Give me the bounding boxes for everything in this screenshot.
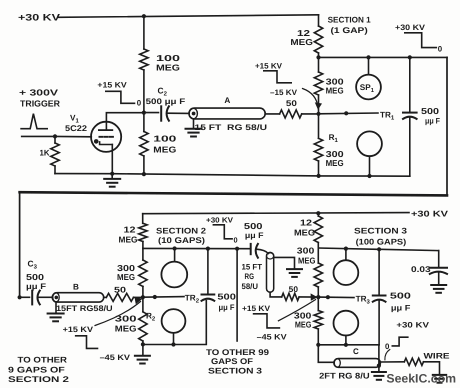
ground (coax shield section3) bbox=[287, 269, 302, 277]
node 12MEG top (section3) bbox=[316, 211, 320, 215]
svg-text:μμ F: μμ F bbox=[26, 282, 46, 291]
TR3 label bbox=[356, 294, 371, 305]
svg-text:50: 50 bbox=[114, 286, 127, 295]
node R2 bottom junction bbox=[141, 342, 145, 346]
coax cable C 2FT RG8/U bbox=[319, 347, 380, 380]
svg-text:SECTION 3: SECTION 3 bbox=[354, 226, 408, 235]
svg-text:MEG: MEG bbox=[119, 235, 138, 245]
coax cable A 15FT RG58/U bbox=[189, 96, 267, 132]
annotation +15KV to -45KV (section2) bbox=[63, 325, 131, 362]
ground (cathode) bbox=[104, 174, 120, 187]
ground (output) bbox=[433, 375, 446, 383]
wire TR3 stub bbox=[318, 295, 354, 299]
wire coax A to 50 bbox=[265, 113, 279, 115]
+30 KV label (rail) bbox=[411, 208, 449, 218]
TR1 label bbox=[380, 111, 395, 122]
svg-text:9 GAPS OF: 9 GAPS OF bbox=[8, 365, 65, 374]
svg-text:B: B bbox=[73, 282, 79, 291]
node cap feed (section2) bbox=[206, 247, 210, 251]
wire to output ground bbox=[424, 362, 440, 375]
coax cable B 15FT RG58/U bbox=[52, 282, 113, 313]
svg-text:–15 KV: –15 KV bbox=[270, 88, 298, 97]
wire coax bottom to 50 bbox=[270, 292, 282, 297]
svg-text:500: 500 bbox=[244, 221, 263, 231]
capacitor 500 uuF (TR3) bbox=[373, 249, 411, 344]
svg-text:(10 GAPS): (10 GAPS) bbox=[158, 236, 205, 245]
resistor 50 (section2) bbox=[104, 286, 143, 302]
svg-text:MEG: MEG bbox=[290, 37, 313, 47]
svg-text:+ 300V: + 300V bbox=[19, 88, 58, 98]
svg-text:(1 GAP): (1 GAP) bbox=[331, 26, 369, 35]
wire output center conductor bbox=[380, 361, 404, 363]
spark gap lower electrode (section2) bbox=[162, 309, 186, 344]
wire section2 bottom bbox=[143, 301, 206, 345]
node C2 junction bbox=[142, 111, 146, 115]
wire +30KV rail (sections 2-3) bbox=[143, 213, 409, 214]
svg-text:μμ F: μμ F bbox=[219, 303, 235, 312]
svg-text:15 FT RG 58/U: 15 FT RG 58/U bbox=[195, 123, 268, 132]
svg-text:500: 500 bbox=[421, 106, 439, 116]
capacitor 500 uuF (TR2) bbox=[202, 249, 237, 312]
resistor 100 MEG lower bbox=[140, 113, 177, 175]
annotation +15KV to -45KV (section3) bbox=[242, 304, 287, 341]
SECTION 2 label bbox=[156, 226, 207, 244]
+30 KV supply label bbox=[18, 12, 61, 23]
resistor 50 (section1) bbox=[280, 99, 302, 118]
node gap2 bottom (section3) bbox=[344, 343, 348, 347]
resistor R1 300 MEG bbox=[314, 114, 344, 176]
coax cable 15FT RG 58/U (vertical) bbox=[242, 252, 274, 292]
node R1 bottom junction bbox=[317, 174, 321, 178]
svg-text:MEG: MEG bbox=[295, 320, 312, 330]
node branch to other gaps (section2) bbox=[235, 247, 239, 251]
wire cathode bottom bbox=[55, 173, 112, 175]
annotation +15KV to -15KV step bbox=[255, 62, 298, 97]
svg-text:+30 KV: +30 KV bbox=[396, 320, 429, 329]
ground (R2 bottom) bbox=[135, 344, 150, 363]
svg-text:MEG: MEG bbox=[156, 63, 180, 73]
svg-text:RG: RG bbox=[245, 272, 255, 281]
node cathode ground junction bbox=[110, 172, 114, 176]
svg-text:(100 GAPS): (100 GAPS) bbox=[356, 237, 407, 246]
svg-text:500: 500 bbox=[217, 292, 236, 302]
annotation 0 step to +30KV (output) bbox=[385, 320, 430, 359]
ground (coax A shield) bbox=[186, 119, 202, 137]
capacitor 0.03 bbox=[411, 251, 447, 285]
svg-text:μμ F: μμ F bbox=[425, 116, 440, 125]
wire 50 to TR3 node bbox=[299, 296, 318, 298]
resistor 300 MEG (section1 upper) bbox=[314, 57, 344, 113]
svg-text:15 FT: 15 FT bbox=[242, 263, 263, 272]
annotation arrow to TR2 node bbox=[95, 297, 142, 326]
svg-text:MEG: MEG bbox=[115, 324, 137, 334]
wire +30KV top rail bbox=[58, 15, 319, 17]
SECTION 3 label bbox=[354, 226, 408, 246]
wire left riser bbox=[19, 192, 21, 297]
svg-text:300: 300 bbox=[297, 246, 315, 256]
TO OTHER 9 GAPS OF SECTION 2 label bbox=[8, 356, 70, 385]
node 100MEG bottom junction bbox=[142, 172, 146, 176]
node gap2 bottom (section2) bbox=[171, 342, 175, 346]
svg-text:A: A bbox=[224, 96, 230, 105]
wire trigger input bbox=[22, 135, 55, 137]
wire section2 gap bus bbox=[143, 247, 250, 249]
node coax C shield junction bbox=[377, 364, 381, 368]
svg-text:12: 12 bbox=[124, 224, 136, 234]
resistor 12 MEG (section3) bbox=[314, 213, 322, 248]
node cap feed (section3) bbox=[377, 247, 381, 251]
svg-text:μμ F: μμ F bbox=[245, 231, 264, 240]
svg-text:500: 500 bbox=[390, 291, 411, 301]
wire to other 99 gaps bbox=[236, 249, 238, 341]
svg-text:58/U: 58/U bbox=[242, 282, 259, 291]
wire section3 bottom bbox=[318, 344, 379, 346]
capacitor C2 500 uuF bbox=[144, 86, 189, 121]
svg-text:+30 KV: +30 KV bbox=[411, 208, 449, 218]
svg-text:50: 50 bbox=[289, 285, 299, 294]
svg-text:–45 KV: –45 KV bbox=[257, 332, 288, 341]
spark gap lower electrode (section1) bbox=[357, 131, 382, 176]
svg-text:100: 100 bbox=[153, 134, 176, 144]
thyratron V1 5C22 bbox=[65, 113, 144, 174]
svg-text:+30 KV: +30 KV bbox=[395, 23, 426, 32]
svg-text:500 μμ F: 500 μμ F bbox=[146, 97, 186, 106]
annotation +30KV step to 0 (section1) bbox=[395, 23, 443, 54]
node gap1 stem (section3) bbox=[344, 247, 348, 251]
resistor 100 MEG upper bbox=[140, 49, 181, 73]
resistor R2 300 MEG bbox=[115, 297, 156, 344]
svg-text:GAPS OF: GAPS OF bbox=[211, 357, 253, 366]
wire interconnect bus (section1 to section2) bbox=[20, 192, 447, 195]
wire 100MEG to C2 node bbox=[143, 70, 145, 113]
capacitor 500 uuF (section1) bbox=[403, 55, 440, 176]
node C3 junction bbox=[18, 295, 22, 299]
annotation +30KV step to 0 (section2) bbox=[206, 215, 238, 244]
node TR1 junction bbox=[316, 112, 320, 116]
wire TR1 stub bbox=[319, 111, 379, 115]
svg-text:MEG: MEG bbox=[326, 158, 344, 168]
ground (coax B shield) bbox=[48, 302, 64, 321]
annotation arrow to TR1 node bbox=[303, 89, 323, 110]
svg-text:+15 KV: +15 KV bbox=[97, 81, 127, 90]
wire shield drop (coax C right) bbox=[378, 345, 380, 367]
annotation arrow to TR3 node bbox=[278, 293, 317, 320]
TR2 label bbox=[185, 294, 200, 305]
svg-text:SeekIC.com: SeekIC.com bbox=[386, 372, 456, 386]
spark gap lower electrode (section3) bbox=[334, 311, 359, 345]
svg-text:12: 12 bbox=[300, 218, 312, 228]
node TR2 junction bbox=[141, 295, 145, 299]
svg-text:+30 KV: +30 KV bbox=[206, 215, 233, 224]
resistor 300 MEG (section3 lower) bbox=[294, 297, 323, 345]
12 MEG label (section3) bbox=[294, 218, 315, 238]
trigger pulse waveform bbox=[21, 114, 47, 129]
wire section3 gap bus bbox=[318, 248, 438, 251]
wire section1 top bus bbox=[319, 56, 448, 58]
wire TR3 column to coax C bbox=[318, 345, 334, 363]
wire 100MEG top lead bbox=[143, 16, 145, 49]
svg-text:500: 500 bbox=[26, 272, 44, 282]
svg-text:MEG: MEG bbox=[326, 85, 344, 95]
svg-text:0: 0 bbox=[234, 235, 238, 244]
resistor WIRE bbox=[404, 351, 450, 365]
TO OTHER 99 GAPS OF SECTION 3 label bbox=[206, 348, 270, 375]
SeekIC.com watermark bbox=[386, 372, 456, 386]
svg-text:SECTION 1: SECTION 1 bbox=[328, 16, 372, 25]
spark gap upper electrode (section2) bbox=[161, 249, 187, 288]
resistor 50 (section3) bbox=[282, 285, 299, 301]
svg-text:C: C bbox=[353, 347, 359, 356]
svg-text:100: 100 bbox=[156, 53, 180, 63]
node 100MEG top junction bbox=[142, 14, 146, 18]
annotation +15 KV step to 0 bbox=[97, 81, 141, 108]
resistor 12 MEG (section2) bbox=[119, 214, 148, 249]
node TR3 column bottom bbox=[316, 343, 320, 347]
ground (coax C shield) bbox=[372, 367, 386, 380]
svg-text:SECTION 2: SECTION 2 bbox=[156, 226, 207, 235]
node gap1 stem (section2) bbox=[173, 246, 177, 250]
svg-text:2FT RG 8/U: 2FT RG 8/U bbox=[319, 372, 370, 381]
wire right riser bbox=[446, 57, 448, 195]
svg-text:300: 300 bbox=[115, 313, 137, 323]
spark gap upper electrode (section3) bbox=[334, 249, 359, 285]
node TR3 junction bbox=[316, 295, 320, 299]
svg-text:WIRE: WIRE bbox=[424, 351, 451, 360]
ground (0.03 cap) bbox=[431, 285, 446, 293]
svg-text:+30 KV: +30 KV bbox=[18, 12, 61, 23]
svg-text:TRIGGER: TRIGGER bbox=[20, 99, 61, 109]
+300V TRIGGER label bbox=[19, 88, 61, 109]
node SP1 stem junction bbox=[366, 55, 370, 59]
svg-text:0.03: 0.03 bbox=[411, 265, 431, 274]
wire coax shield to ground (section3) bbox=[274, 257, 295, 268]
resistor 12 MEG (section1) bbox=[290, 15, 322, 58]
svg-text:0: 0 bbox=[438, 45, 443, 54]
svg-text:–45 KV: –45 KV bbox=[100, 353, 131, 362]
svg-text:TO OTHER 99: TO OTHER 99 bbox=[206, 348, 270, 357]
svg-text:MEG: MEG bbox=[294, 228, 315, 238]
svg-text:50: 50 bbox=[286, 99, 298, 108]
svg-text:1K: 1K bbox=[40, 148, 50, 157]
wire bottom bus right bbox=[319, 175, 410, 177]
resistor 300 MEG (section2) bbox=[117, 248, 147, 297]
resistor 1K bbox=[40, 136, 60, 173]
svg-text:+15 KV: +15 KV bbox=[255, 62, 283, 71]
wire 50 to node bbox=[302, 113, 319, 115]
svg-text:SECTION 3: SECTION 3 bbox=[208, 366, 263, 375]
svg-text:μμ F: μμ F bbox=[391, 304, 411, 313]
node grid junction bbox=[53, 134, 57, 138]
wire grid to tube bbox=[55, 135, 91, 137]
svg-text:15FT RG58/U: 15FT RG58/U bbox=[56, 304, 113, 313]
SECTION 1 label bbox=[328, 16, 372, 36]
svg-text:+15 KV: +15 KV bbox=[63, 325, 94, 334]
svg-text:MEG: MEG bbox=[153, 145, 176, 155]
svg-text:SECTION 2: SECTION 2 bbox=[8, 375, 70, 384]
capacitor C3 500 uuF bbox=[20, 259, 53, 305]
spark gap SP1 upper electrode bbox=[356, 57, 381, 99]
svg-text:0: 0 bbox=[137, 99, 142, 108]
wire bottom bus section1 bbox=[112, 174, 318, 176]
node lower electrode bottom bbox=[367, 174, 371, 178]
svg-text:MEG: MEG bbox=[117, 272, 135, 282]
wire TR2 stub bbox=[143, 295, 184, 299]
svg-text:5C22: 5C22 bbox=[65, 124, 87, 133]
node section1 top bus left bbox=[316, 55, 320, 59]
svg-text:MEG: MEG bbox=[298, 256, 316, 266]
svg-text:TO OTHER: TO OTHER bbox=[18, 356, 68, 365]
resistor 300 MEG (section3 upper) bbox=[297, 246, 323, 298]
svg-text:+15 KV: +15 KV bbox=[242, 304, 271, 313]
capacitor 500 uuF (section3 input) bbox=[244, 221, 268, 258]
